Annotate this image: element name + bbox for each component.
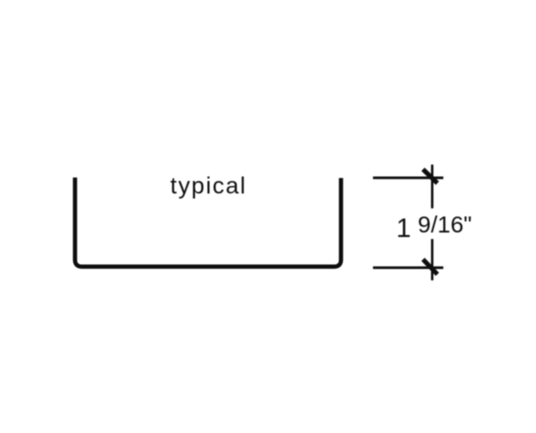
dimension line vertical lower segment <box>431 239 433 280</box>
dimension extension line top <box>373 177 443 180</box>
tick mark bottom <box>423 259 437 274</box>
channel outline (U-shape profile) <box>75 178 341 267</box>
svg-text:9/16": 9/16" <box>418 212 472 238</box>
dimension line vertical upper segment <box>431 165 433 209</box>
svg-text:typical: typical <box>170 172 246 198</box>
dimension extension line bottom <box>373 266 443 269</box>
svg-text:1: 1 <box>396 213 411 243</box>
tick mark top <box>423 169 437 183</box>
